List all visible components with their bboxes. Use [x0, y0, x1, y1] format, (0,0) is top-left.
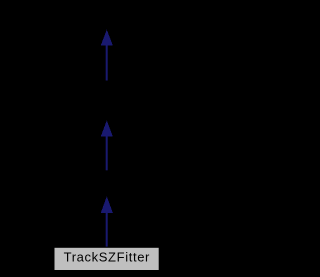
svg-text:TrackSZFitter: TrackSZFitter	[64, 250, 150, 265]
